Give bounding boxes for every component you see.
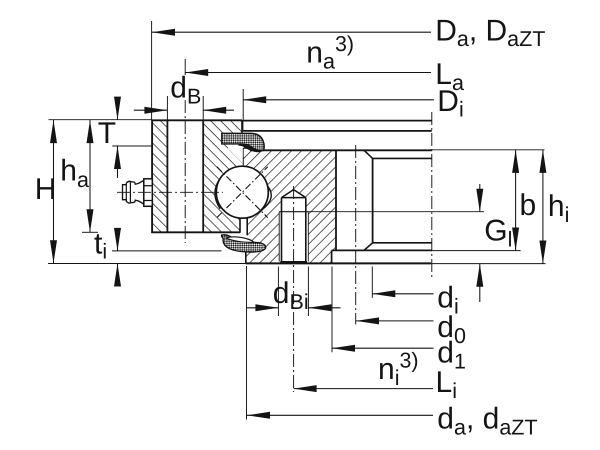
- dimension G_l (outside arrows): [479, 184, 481, 212]
- bolt hole d_B through outer ring: [166, 120, 168, 232]
- dimension D_a, D_aZT: [152, 31, 431, 33]
- dimension L_i: [294, 388, 433, 390]
- lower seal: [222, 235, 266, 252]
- outer ring outline: [152, 119, 242, 121]
- gear tooth chamfer bottom: [364, 243, 373, 251]
- dimension b: [515, 150, 517, 251]
- svg-text:b: b: [520, 189, 537, 222]
- dimension T (outside arrows): [117, 98, 119, 120]
- top collar band: [243, 120, 432, 122]
- dimension d_Bi (outside arrows): [246, 307, 278, 309]
- tapped hole d_Bi in inner ring: [282, 190, 306, 198]
- dimension H: [53, 120, 55, 263]
- tooth space top edge: [373, 157, 432, 159]
- outer ring section (hatched): [152, 120, 244, 232]
- gear rim bottom face: [332, 249, 432, 251]
- dimension d_a, d_aZT: [247, 414, 433, 416]
- dimension h_i: [542, 150, 544, 264]
- inner ring section (hatched): [244, 148, 336, 263]
- grease nipple: [123, 180, 144, 204]
- inner raceway arc: [261, 186, 271, 211]
- ball (rolling element): [216, 166, 268, 218]
- outer raceway arc: [215, 178, 220, 208]
- svg-text:H: H: [35, 173, 57, 206]
- dimension L_a: [185, 72, 431, 74]
- inner ring outline: [244, 147, 251, 149]
- centreline of hole d_B: [184, 100, 186, 243]
- upper seal lip: [238, 144, 262, 153]
- thread major dia lines: [278, 212, 280, 262]
- svg-text:T: T: [98, 117, 116, 150]
- dimension t_i (outside arrows): [117, 228, 119, 251]
- tooth space wall: [372, 158, 374, 242]
- dimension D_i: [243, 99, 434, 101]
- gear tooth chamfer top: [364, 150, 373, 158]
- gear reference line: [431, 112, 433, 280]
- tooth flank / section boundary: [335, 150, 337, 250]
- dimension d_0: [356, 320, 434, 322]
- dimension d_B (outside arrows): [134, 109, 168, 111]
- dimension d_1: [332, 347, 434, 349]
- extension lines: [151, 21, 153, 120]
- hole mouth: [280, 261, 307, 264]
- tooth space bottom edge: [373, 242, 432, 244]
- dimension d_i: [372, 293, 433, 295]
- dimension h_a: [89, 120, 91, 232]
- lower seal white gap: [226, 237, 254, 243]
- grease passage centreline: [117, 191, 223, 193]
- gear pitch line d_0: [355, 145, 357, 324]
- centreline of hole d_Bi: [293, 186, 295, 392]
- thread end line: [279, 211, 308, 213]
- upper seal: [222, 133, 264, 150]
- ball contact-line diagonals: [217, 167, 268, 218]
